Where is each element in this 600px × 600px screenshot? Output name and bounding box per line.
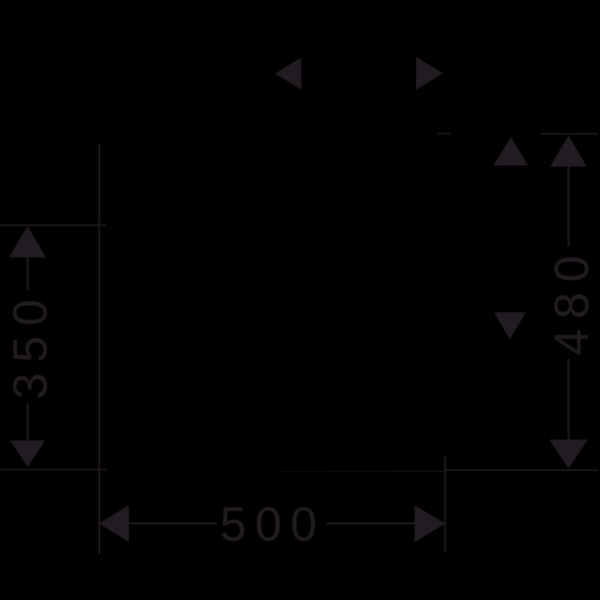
wall line [98, 143, 100, 554]
dimension 500: arrow right [415, 505, 446, 542]
dimension 500: arrow left [99, 505, 129, 542]
dimension 350: arrow down [10, 441, 45, 468]
adjustability arrow right (top pair) [416, 57, 443, 90]
extension line bottom-left (350/500 lower reference) [0, 469, 107, 471]
adjustability arrow left (top pair) [275, 57, 301, 90]
dimension 480: arrow down [549, 440, 588, 469]
extension line right vertical (500 right reference) [444, 456, 446, 553]
dimension 350: line lower [27, 403, 29, 441]
dimension 480: line upper [568, 167, 570, 247]
extension dash top (480 upper reference, left piece) [437, 133, 451, 135]
extension line bottom-right (480 lower reference) [445, 469, 598, 471]
adjustability arrow up (right pair) [494, 137, 529, 166]
dimension 350: arrow up [9, 226, 46, 258]
adjustability arrow down (right pair) [494, 312, 526, 339]
extension line top-left (350 upper reference) [0, 224, 106, 226]
product bottom edge (faint) [279, 471, 445, 472]
svg-text:500: 500 [220, 499, 326, 552]
svg-text:480: 480 [546, 245, 599, 355]
dimension 480: line lower [568, 359, 570, 440]
extension line top-right (480 upper reference) [541, 133, 599, 135]
dimension 480: arrow up [550, 136, 587, 167]
dimension 500: line left [129, 523, 216, 525]
dimension 350: line upper [27, 258, 29, 291]
svg-text:350: 350 [4, 289, 57, 399]
dimension 500: line right [326, 523, 415, 525]
